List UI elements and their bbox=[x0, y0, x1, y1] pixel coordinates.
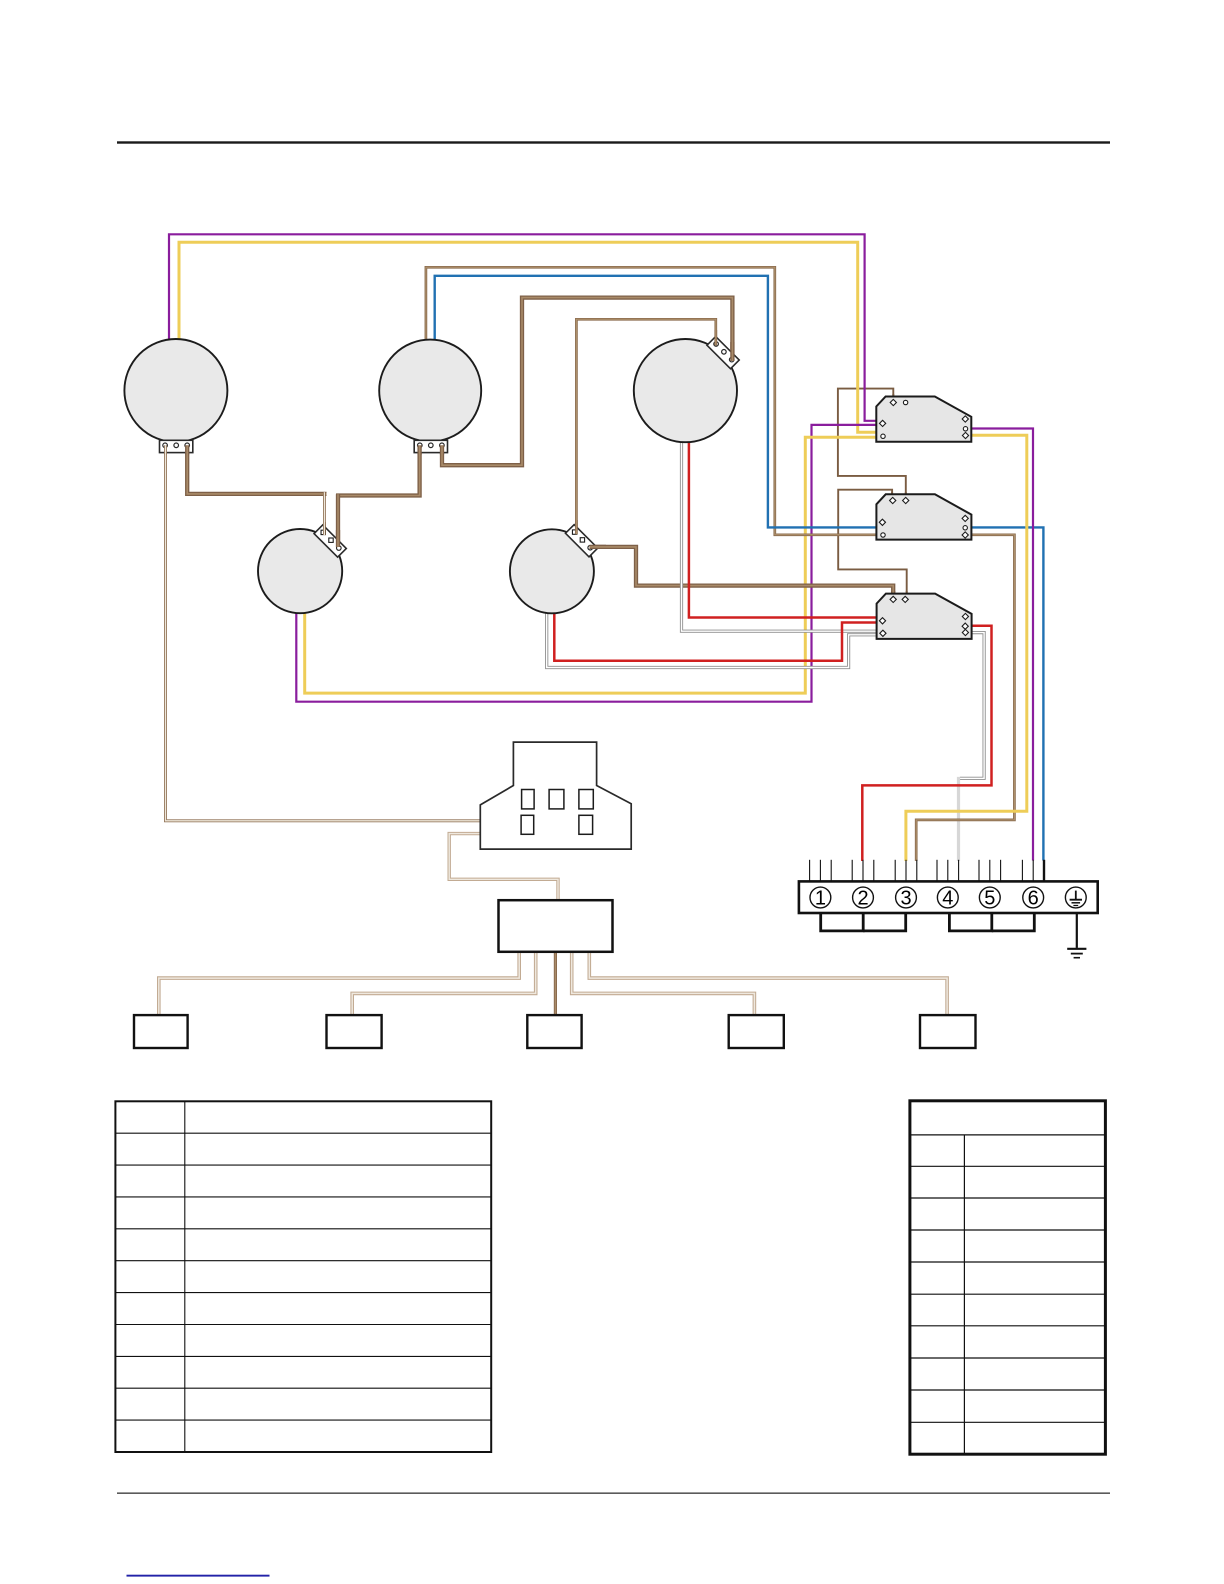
wire stub wire at B1 pin3 bbox=[185, 445, 189, 454]
svg-text:5: 5 bbox=[984, 888, 995, 910]
wire stub wire at B1 pin1 bbox=[164, 445, 167, 454]
wire purple top loop B1 to switch M1 bbox=[169, 234, 880, 420]
terminal 2 bbox=[853, 887, 874, 910]
burner B1 left bbox=[124, 339, 227, 442]
svg-text:3: 3 bbox=[900, 888, 911, 910]
svg-text:1: 1 bbox=[815, 888, 826, 910]
wire tan spark module to igniter 5 bbox=[589, 951, 947, 1016]
terminal 3 bbox=[896, 887, 917, 910]
wire tan spark module to igniter 1 bbox=[159, 951, 519, 1016]
wire gray B5 to switch M3 bbox=[547, 613, 879, 668]
wire brown B2 to B4 block vertical bbox=[336, 494, 340, 546]
header rule bbox=[117, 141, 1110, 143]
earth ground symbol bbox=[1067, 913, 1086, 958]
terminal strip block bbox=[799, 881, 1098, 913]
wire brown B1 to ignition plug bbox=[166, 446, 482, 821]
wire red B3 to switch M3 bbox=[689, 442, 879, 618]
terminal 6 bbox=[1023, 887, 1044, 910]
wire red B5 to switch M3 bbox=[554, 613, 878, 661]
wire brown B1 to B4 block vertical bbox=[323, 492, 326, 534]
wire stub brown into B4 block pin1 bbox=[323, 522, 326, 535]
igniter 4 bbox=[729, 1015, 784, 1048]
plug pin slot 2 bbox=[549, 790, 564, 809]
wire brown chain switch M1 to M2 bbox=[838, 389, 906, 501]
legend table left bbox=[115, 1101, 491, 1452]
burner B5 lower-centre bbox=[510, 529, 594, 613]
jumper bus terminals 4-5-6 bbox=[949, 913, 991, 931]
wire brown switch M2 to terminal 3 bbox=[916, 535, 1014, 861]
wire gray B3 to switch M3 bbox=[682, 442, 879, 631]
plug pin slot 5 bbox=[579, 815, 593, 834]
wire brown thick B5 block to switch M3 bbox=[588, 547, 893, 599]
wire blue B2 to switch M2 bbox=[435, 276, 879, 528]
legend table right bbox=[910, 1101, 1106, 1454]
switch module M3 bbox=[877, 594, 972, 639]
jumper bus terminals 1-2-3 bbox=[821, 913, 864, 931]
terminal 4 bbox=[937, 887, 958, 910]
footer rule bbox=[117, 1493, 1110, 1494]
wire stub brown into B4 block pin3 bbox=[336, 530, 340, 547]
wire red switch M3 to terminal 2 bbox=[862, 626, 991, 861]
wire brown thick B2 to B3 block bbox=[442, 298, 732, 466]
wire yellow top loop B1 to switch M1 bbox=[179, 242, 880, 432]
wire blue switch M2 to terminal 6 bbox=[966, 527, 1043, 860]
wire brown chain switch M2 to M3 bbox=[838, 490, 907, 599]
wire purple B4 to switch M1 bbox=[296, 425, 879, 702]
wire stub wire at B2 pin1 bbox=[417, 445, 421, 454]
wire tan ignition plug to spark module bbox=[449, 834, 558, 901]
svg-text:4: 4 bbox=[942, 888, 953, 910]
wire stub brown into M2 pin1 bbox=[891, 492, 893, 501]
terminal 1 bbox=[810, 887, 831, 910]
wire brown B2 to B4 block horizontal bbox=[336, 446, 420, 496]
rotated terminal block of burner B4 bbox=[314, 525, 346, 557]
wire stub brown thick into M3 pin1 bbox=[891, 591, 895, 600]
wire stub brown into B5 block pin1 bbox=[575, 520, 578, 534]
ignition plug connector bbox=[480, 742, 631, 849]
burner B3 right bbox=[634, 339, 737, 442]
igniter 1 bbox=[134, 1015, 188, 1048]
wire stub brown into B3 block pin3 bbox=[730, 342, 734, 361]
wire tan spark module to igniter 2 bbox=[352, 951, 536, 1016]
switch module M1 bbox=[876, 397, 971, 442]
terminal pins bbox=[810, 860, 1044, 882]
wire brown B3 block to B5 block bbox=[576, 319, 715, 533]
terminal earth circle bbox=[1065, 887, 1086, 908]
switch module M2 bbox=[876, 494, 971, 539]
footer link underline bbox=[127, 1575, 270, 1577]
burner B2 centre bbox=[379, 340, 481, 442]
wire stub brown from B5 block pin3 bbox=[590, 545, 607, 549]
spark ignition module bbox=[499, 900, 613, 952]
wire tan spark module to igniter 4 bbox=[572, 951, 755, 1016]
wire stub brown into M3 pin2 bbox=[906, 591, 908, 600]
rotated terminal block of burner B5 bbox=[565, 525, 597, 557]
igniter 3 bbox=[527, 1015, 581, 1048]
wire brown B2 to switch M2 bbox=[426, 267, 879, 535]
wire stub brown into M1 pin1 bbox=[892, 394, 894, 403]
wire brown thick B1 to B4 horizontal bbox=[187, 446, 326, 494]
wire stub brown into B3 block pin1 bbox=[714, 330, 717, 346]
plug pin slot 1 bbox=[522, 790, 535, 809]
wire purple switch M1 to terminal 6 bbox=[966, 429, 1033, 861]
igniter 2 bbox=[327, 1015, 382, 1048]
svg-text:2: 2 bbox=[857, 888, 868, 910]
rotated terminal block of burner B3 bbox=[707, 336, 739, 368]
terminal block of burner B1 bbox=[160, 440, 193, 452]
svg-text:6: 6 bbox=[1028, 888, 1039, 910]
wire brown spark module to igniter 3 bbox=[554, 951, 557, 1016]
plug pin slot 4 bbox=[521, 815, 534, 834]
wire white wire down to terminal 4 bbox=[957, 777, 960, 861]
terminal 5 bbox=[979, 887, 1000, 910]
igniter 5 bbox=[920, 1015, 976, 1048]
wire stub wire at B2 pin3 bbox=[440, 445, 444, 454]
terminal block of burner B2 bbox=[414, 440, 447, 452]
wire stub brown into M2 pin2 bbox=[905, 492, 907, 501]
burner B4 lower-left bbox=[258, 529, 342, 613]
wire yellow switch M1 to terminal 3 bbox=[906, 435, 1027, 861]
wire yellow B4 to switch M1 bbox=[305, 437, 880, 693]
plug pin slot 3 bbox=[579, 790, 593, 809]
wire gray switch M3 to terminal 4 upper bbox=[960, 633, 984, 779]
